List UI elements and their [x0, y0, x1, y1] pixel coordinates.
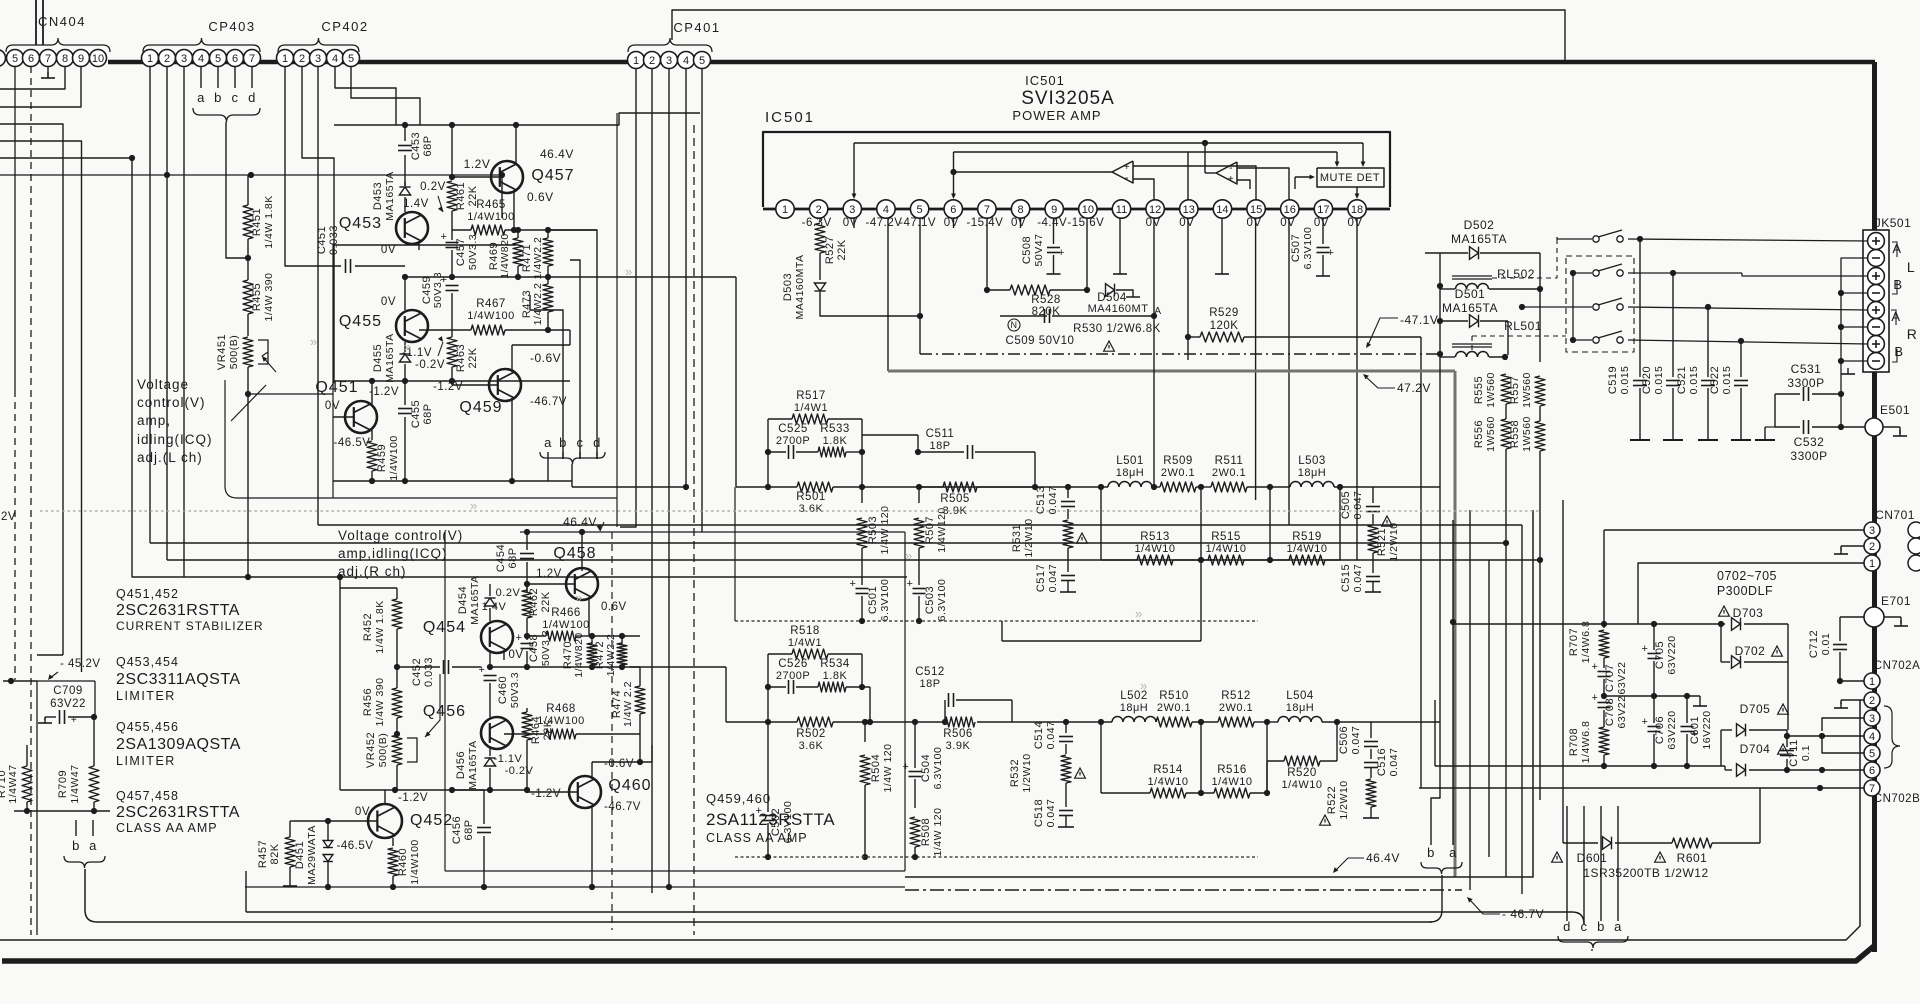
capacitor C458: [526, 618, 528, 640]
svg-text:6.3V100: 6.3V100: [1302, 227, 1314, 270]
capacitor C518: [1059, 810, 1073, 812]
svg-text:C454: C454: [495, 544, 507, 572]
svg-text:4: 4: [332, 53, 338, 65]
svg-text:22K: 22K: [540, 591, 552, 612]
wire ba stem right: [1430, 875, 1442, 922]
wire C451 to rail: [355, 265, 405, 267]
wire CN404 pin9: [0, 67, 81, 108]
brace abcd: [193, 108, 260, 122]
wire right vertical 1522: [1521, 525, 1523, 894]
wire left y141: [0, 141, 82, 672]
svg-text:R512: R512: [1221, 690, 1251, 702]
resistor R506: [945, 717, 975, 727]
capacitor C456: [483, 790, 485, 824]
svg-text:0702~705: 0702~705: [1717, 569, 1777, 583]
wire pin10 down: [1086, 218, 1088, 290]
svg-text:50V3.3: 50V3.3: [509, 672, 521, 708]
svg-text:C521: C521: [1676, 366, 1688, 394]
svg-text:6: 6: [28, 53, 34, 65]
CN702A pin 7: [1864, 780, 1880, 796]
wire 47.2V gray rail: [888, 370, 1455, 373]
CN404 pin 8: [57, 50, 74, 67]
svg-text:»: »: [575, 590, 582, 605]
svg-text:0.047: 0.047: [1350, 726, 1362, 755]
capacitor C455: [404, 381, 406, 405]
svg-text:R529: R529: [1209, 307, 1239, 319]
wire VR451 bottom: [247, 390, 249, 394]
wire CN702A pin4: [1787, 735, 1864, 737]
svg-text:E701: E701: [1881, 594, 1911, 608]
CP402 pin 4: [327, 50, 344, 67]
svg-text:D501: D501: [1455, 287, 1486, 301]
svg-text:JK501: JK501: [1875, 216, 1912, 230]
capacitor C519: [1639, 239, 1641, 377]
IC501 pin 3: [843, 200, 861, 218]
svg-text:amp,idling(ICQ): amp,idling(ICQ): [338, 546, 448, 561]
svg-text:46.4V: 46.4V: [563, 515, 597, 529]
JK501 terminal 7: [1868, 336, 1885, 353]
svg-text:0.015: 0.015: [1653, 366, 1665, 395]
wire CP401 pin2 down: [651, 69, 653, 894]
svg-text:1/4W1: 1/4W1: [788, 637, 822, 649]
dashed link RL502 to contacts: [1492, 237, 1557, 278]
resistor R527: [819, 218, 821, 222]
svg-text:Voltage: Voltage: [137, 377, 189, 392]
svg-text:0.033: 0.033: [423, 657, 435, 687]
svg-text:Q459: Q459: [459, 399, 502, 416]
svg-text:22K: 22K: [836, 239, 848, 260]
CP401 pin 5: [694, 52, 711, 69]
CN404 pin 10: [90, 50, 107, 67]
svg-text:46.4V: 46.4V: [540, 147, 574, 161]
wire arrow to pin3: [853, 143, 855, 196]
svg-text:-: -: [1229, 162, 1233, 174]
svg-text:3.9K: 3.9K: [946, 740, 971, 752]
wires from top edge: [35, 0, 37, 45]
wire top thick bus: [108, 60, 1875, 65]
svg-text:-46.5V: -46.5V: [337, 840, 374, 852]
svg-text:MUTE DET: MUTE DET: [1320, 172, 1380, 184]
svg-text:MA4160MTA: MA4160MTA: [794, 255, 806, 320]
svg-text:R461: R461: [455, 182, 467, 210]
wire D503 to pin5 column: [820, 292, 920, 316]
CN404 pin 4 partial: [0, 50, 6, 67]
svg-text:1: 1: [147, 53, 153, 65]
wire IC internal h152: [954, 151, 1338, 153]
box MUTE DET: [1317, 168, 1384, 187]
wire x502 down: [501, 175, 503, 218]
op-amp B: [1216, 162, 1237, 184]
svg-text:2W0.1: 2W0.1: [1212, 467, 1246, 479]
wire CP403 pin2 down: [166, 67, 168, 561]
svg-text:3300P: 3300P: [1787, 376, 1824, 390]
svg-text:63V22: 63V22: [1616, 662, 1628, 695]
svg-text:R556: R556: [1473, 420, 1485, 448]
svg-text:18P: 18P: [919, 678, 940, 690]
wire CN701 pin3 left: [1604, 529, 1864, 531]
svg-text:1/4W10: 1/4W10: [1148, 776, 1189, 788]
svg-text:VR452: VR452: [365, 732, 377, 768]
transistor Q454: [481, 621, 513, 653]
svg-text:50V3.3: 50V3.3: [432, 272, 444, 308]
wire CN702A pin1: [1840, 680, 1864, 682]
resistor R460: [392, 838, 394, 846]
capacitor C459: [446, 285, 459, 287]
capacitor C516: [1364, 762, 1378, 764]
wire long y577: [248, 576, 907, 578]
svg-text:1W560: 1W560: [1521, 416, 1533, 452]
svg-text:0V: 0V: [508, 649, 523, 661]
svg-text:17: 17: [1317, 204, 1329, 216]
resistor R555 R556 chain: [1439, 354, 1441, 356]
svg-text:4: 4: [1869, 731, 1875, 743]
svg-text:MA165TA: MA165TA: [384, 171, 396, 220]
wire Q458 emitter down: [588, 597, 590, 636]
svg-text:15: 15: [1250, 204, 1262, 216]
svg-text:D453: D453: [372, 182, 384, 210]
resistor R709: [93, 717, 95, 766]
svg-text:Q460: Q460: [608, 777, 651, 794]
svg-text:CN702B: CN702B: [1874, 793, 1920, 805]
svg-text:POWER AMP: POWER AMP: [1012, 108, 1101, 123]
svg-text:5: 5: [348, 53, 354, 65]
svg-text:1/4W10: 1/4W10: [1135, 543, 1176, 555]
svg-text:L503: L503: [1298, 455, 1326, 467]
svg-text:1/4W 2.2: 1/4W 2.2: [622, 681, 634, 727]
svg-text:C520: C520: [1641, 366, 1653, 394]
transistor Q459: [489, 369, 521, 401]
svg-text:MA165TA: MA165TA: [467, 740, 479, 789]
svg-text:0V: 0V: [381, 296, 396, 308]
svg-text:b: b: [1427, 845, 1435, 860]
svg-text:R452: R452: [362, 613, 374, 641]
svg-text:L504: L504: [1286, 690, 1314, 702]
svg-text:0.1: 0.1: [1800, 745, 1812, 761]
svg-text:MA4160MT: MA4160MT: [1088, 303, 1149, 315]
wire CN702A pin7: [1419, 787, 1864, 789]
CN404 pin 5: [7, 50, 24, 67]
resistor R502: [797, 717, 833, 727]
svg-text:+: +: [903, 761, 910, 773]
svg-text:R527: R527: [824, 236, 836, 264]
svg-text:0.2V: 0.2V: [496, 587, 521, 599]
svg-text:1/2W10: 1/2W10: [1023, 518, 1035, 557]
wire ba verticals up: [1431, 354, 1440, 845]
switch row3: [1593, 304, 1599, 310]
svg-text:d: d: [248, 90, 256, 105]
svg-text:a: a: [89, 838, 97, 853]
wire Q459 collector: [511, 345, 513, 372]
svg-text:2SC3311AQSTA: 2SC3311AQSTA: [116, 671, 241, 688]
svg-text:-46.7V: -46.7V: [604, 801, 641, 813]
svg-text:Q457,458: Q457,458: [116, 789, 179, 803]
resistor R531: [1063, 520, 1073, 548]
svg-text:»: »: [1135, 606, 1142, 621]
svg-text:1/4W 390: 1/4W 390: [374, 678, 386, 727]
CP403 pin 6: [227, 50, 244, 67]
CP402 pin 2: [294, 50, 311, 67]
svg-text:68P: 68P: [463, 819, 475, 840]
svg-text:d: d: [1563, 919, 1571, 934]
svg-text:1/4W 1.8K: 1/4W 1.8K: [263, 195, 275, 249]
svg-text:C706: C706: [1654, 716, 1666, 744]
wire mid rail Lch: [405, 276, 548, 278]
CP401 pin 1: [628, 52, 645, 69]
wire mid rail to right: [548, 276, 736, 278]
JK501 terminal 4: [1868, 285, 1885, 302]
wire CN702A pin6: [1787, 769, 1864, 771]
svg-text:R456: R456: [362, 688, 374, 716]
svg-text:R707: R707: [1568, 628, 1580, 656]
svg-text:Q459,460: Q459,460: [706, 791, 771, 806]
svg-text:a: a: [197, 90, 205, 105]
svg-text:2SC2631RSTTA: 2SC2631RSTTA: [116, 602, 240, 619]
IC501 pin 10: [1079, 200, 1097, 218]
svg-text:+: +: [907, 578, 914, 590]
svg-text:0V: 0V: [1011, 217, 1026, 229]
wire right vertical 1489: [1488, 560, 1490, 857]
svg-text:+: +: [756, 805, 763, 817]
wire pin12 down: [1153, 316, 1155, 487]
svg-text:-47.1V: -47.1V: [899, 217, 936, 229]
resistor R504: [864, 722, 866, 742]
svg-text:63V22: 63V22: [50, 698, 86, 710]
svg-text:+: +: [1642, 643, 1649, 655]
JK501 terminal 2: [1868, 250, 1885, 267]
svg-text:0.047: 0.047: [1352, 564, 1364, 593]
transistor Q452: [368, 804, 402, 838]
svg-text:R467: R467: [476, 298, 506, 310]
svg-text:R709: R709: [57, 770, 69, 798]
transistor Q458: [566, 568, 598, 600]
wires abcd up: [547, 452, 549, 481]
svg-text:+: +: [441, 231, 448, 243]
svg-text:C511: C511: [926, 428, 955, 440]
svg-text:6.3V100: 6.3V100: [879, 579, 891, 622]
svg-text:63V22: 63V22: [1616, 696, 1628, 729]
wire Rch box bottom: [445, 870, 905, 872]
CP402 pin 1: [277, 50, 294, 67]
wire dcba stem: [1591, 949, 1593, 951]
svg-text:R468: R468: [546, 703, 576, 715]
svg-text:- 45.2V: - 45.2V: [60, 658, 101, 670]
svg-text:+: +: [1592, 692, 1599, 704]
svg-text:0V: 0V: [843, 217, 858, 229]
svg-text:1/2W10: 1/2W10: [1338, 780, 1350, 819]
svg-text:C709: C709: [53, 685, 83, 697]
svg-text:R557: R557: [1509, 376, 1521, 404]
wire long y525: [318, 524, 1522, 526]
resistor R508: [914, 779, 916, 808]
svg-text:1/4W100: 1/4W100: [542, 619, 590, 631]
svg-text:+: +: [1228, 174, 1234, 185]
wire Q459 base: [452, 384, 498, 386]
wire row4 left: [1573, 307, 1592, 340]
svg-text:D502: D502: [1464, 218, 1495, 232]
svg-text:+: +: [516, 632, 523, 644]
diode D504: [1084, 287, 1090, 293]
svg-text:0.015: 0.015: [1619, 366, 1631, 395]
svg-text:3: 3: [1869, 713, 1875, 725]
wire arrow to mute right: [1362, 143, 1364, 164]
svg-text:b: b: [214, 90, 222, 105]
svg-text:CN404: CN404: [38, 14, 86, 29]
svg-text:7: 7: [984, 204, 990, 216]
capacitor C507: [1322, 218, 1324, 244]
wire arrow to pin6: [953, 152, 955, 196]
svg-text:amp,: amp,: [137, 413, 171, 428]
svg-text:b: b: [1597, 919, 1605, 934]
capacitor C517: [1061, 575, 1075, 577]
svg-text:1/4W1: 1/4W1: [794, 402, 828, 414]
svg-text:-0.6V: -0.6V: [604, 758, 634, 770]
resistor R532: [1061, 755, 1071, 783]
svg-text:-4.4V: -4.4V: [1037, 217, 1067, 229]
svg-text:+: +: [1328, 247, 1335, 259]
svg-text:+: +: [479, 664, 486, 676]
svg-text:1: 1: [782, 204, 788, 216]
svg-text:MA165TA: MA165TA: [1442, 301, 1498, 315]
svg-text:46.4V: 46.4V: [1366, 851, 1400, 865]
wire left y124: [0, 124, 63, 655]
svg-text:C457: C457: [455, 238, 467, 266]
wire PSU bottom rail: [1435, 765, 1725, 767]
svg-text:C501: C501: [867, 586, 879, 614]
svg-text:0.6V: 0.6V: [601, 601, 627, 613]
svg-text:68P: 68P: [422, 135, 434, 156]
svg-text:D702: D702: [1735, 644, 1766, 658]
wire dashed CP401: [693, 125, 695, 935]
IC501 pin 16: [1281, 200, 1299, 218]
wire dotted y511: [40, 510, 1540, 512]
svg-text:-0.6V: -0.6V: [530, 351, 561, 365]
wire pin4 down: [887, 218, 889, 371]
svg-text:1/4W100: 1/4W100: [467, 310, 515, 322]
svg-text:1/4W10: 1/4W10: [1212, 776, 1253, 788]
resistor R459: [371, 430, 373, 440]
svg-text:3: 3: [181, 53, 187, 65]
capacitor C504: [914, 722, 916, 768]
wire dcba stem link: [1583, 921, 1585, 924]
wire lower rail Lch: [333, 380, 570, 382]
brace CN702A: [1884, 706, 1900, 768]
svg-text:5: 5: [1869, 748, 1875, 760]
resistor R455: [243, 280, 253, 314]
wire pin13 down: [1187, 218, 1189, 337]
CP403 pin 2: [159, 50, 176, 67]
svg-text:1.4V: 1.4V: [482, 601, 507, 613]
wire CP402 pin5: [351, 67, 420, 126]
svg-text:63V220: 63V220: [1666, 710, 1678, 749]
svg-text:1/4W47: 1/4W47: [69, 764, 81, 803]
svg-text:R511: R511: [1215, 455, 1244, 467]
svg-text:R520: R520: [1287, 767, 1317, 779]
svg-text:1.2V: 1.2V: [464, 157, 491, 171]
capacitor C457: [451, 211, 453, 240]
wire R473 node right: [548, 329, 570, 331]
wire fb box verticals: [767, 419, 769, 487]
svg-text:R516: R516: [1217, 764, 1247, 776]
svg-text:-0.2V: -0.2V: [505, 765, 534, 777]
svg-text:2SA1309AQSTA: 2SA1309AQSTA: [116, 736, 241, 753]
svg-text:6.3V100: 6.3V100: [932, 747, 944, 790]
capacitor C460: [484, 675, 497, 677]
svg-text:1/4W100: 1/4W100: [537, 715, 585, 727]
wire opampA output: [954, 171, 1113, 173]
svg-text:C522: C522: [1709, 366, 1721, 394]
wire mid gnd rail psu: [1604, 695, 1700, 697]
IC501 pin 5: [910, 200, 928, 218]
svg-text:C514: C514: [1033, 721, 1045, 749]
wire CP403 pin3 down: [183, 67, 185, 578]
svg-text:1/4W120: 1/4W120: [936, 507, 948, 553]
svg-text:VR451: VR451: [216, 334, 228, 370]
svg-text:0V: 0V: [1280, 217, 1295, 229]
capacitor C508: [1053, 218, 1055, 244]
svg-text:0V: 0V: [325, 400, 340, 412]
wire node down x132: [132, 158, 248, 577]
wire CN404 pin8: [0, 67, 65, 90]
svg-text:R519: R519: [1292, 531, 1322, 543]
resistor R452: [392, 599, 402, 629]
resistor R522: [1366, 779, 1376, 807]
svg-text:2W0.1: 2W0.1: [1161, 467, 1195, 479]
svg-text:1/4W6.8: 1/4W6.8: [1580, 721, 1592, 764]
wire rail left vert: [1434, 700, 1436, 766]
capacitor C522: [1740, 341, 1742, 377]
svg-text:IC501: IC501: [1025, 73, 1065, 88]
svg-text:1/4W100: 1/4W100: [409, 839, 421, 885]
ground CN701 pin2: [1841, 545, 1864, 547]
svg-text:C518: C518: [1033, 799, 1045, 827]
wire mute det output to pin18: [1356, 187, 1358, 196]
capacitor C503: [913, 588, 926, 590]
svg-text:C512: C512: [915, 666, 945, 678]
wire CP401 pin4 down: [685, 69, 687, 488]
svg-text:B: B: [1894, 344, 1903, 359]
svg-text:»: »: [404, 339, 411, 354]
svg-text:8: 8: [62, 53, 68, 65]
wire d up: [548, 230, 597, 459]
svg-text:R462: R462: [528, 588, 540, 616]
CP401 pin 2: [644, 52, 661, 69]
CP401 pin 4: [678, 52, 695, 69]
svg-text:18μH: 18μH: [1120, 702, 1149, 714]
svg-text:C531: C531: [1791, 362, 1822, 376]
svg-text:CN701: CN701: [1875, 508, 1915, 522]
svg-text:c: c: [232, 90, 239, 105]
svg-text:1/4W 120: 1/4W 120: [882, 744, 894, 793]
wire right thick border: [1872, 62, 1877, 952]
resistor R467: [471, 325, 505, 335]
svg-text:1/4W10: 1/4W10: [1206, 543, 1247, 555]
svg-text:CP402: CP402: [321, 19, 368, 34]
wire Q453 emitter rail: [333, 244, 516, 246]
svg-text:D455: D455: [372, 344, 384, 372]
svg-text:R501: R501: [796, 491, 826, 503]
svg-text:C455: C455: [410, 400, 422, 428]
svg-text:N: N: [1011, 320, 1018, 330]
IC501 pin 2: [809, 200, 827, 218]
JK501 terminal 1: [1868, 233, 1885, 250]
capacitor C521: [1707, 307, 1709, 377]
resistor R473: [547, 277, 549, 284]
wire pin5 down: [919, 218, 921, 354]
svg-text:0V: 0V: [1179, 217, 1194, 229]
diode D453: [404, 181, 406, 186]
resistor R507: [918, 487, 920, 503]
svg-text:-47.1V: -47.1V: [1400, 313, 1438, 327]
